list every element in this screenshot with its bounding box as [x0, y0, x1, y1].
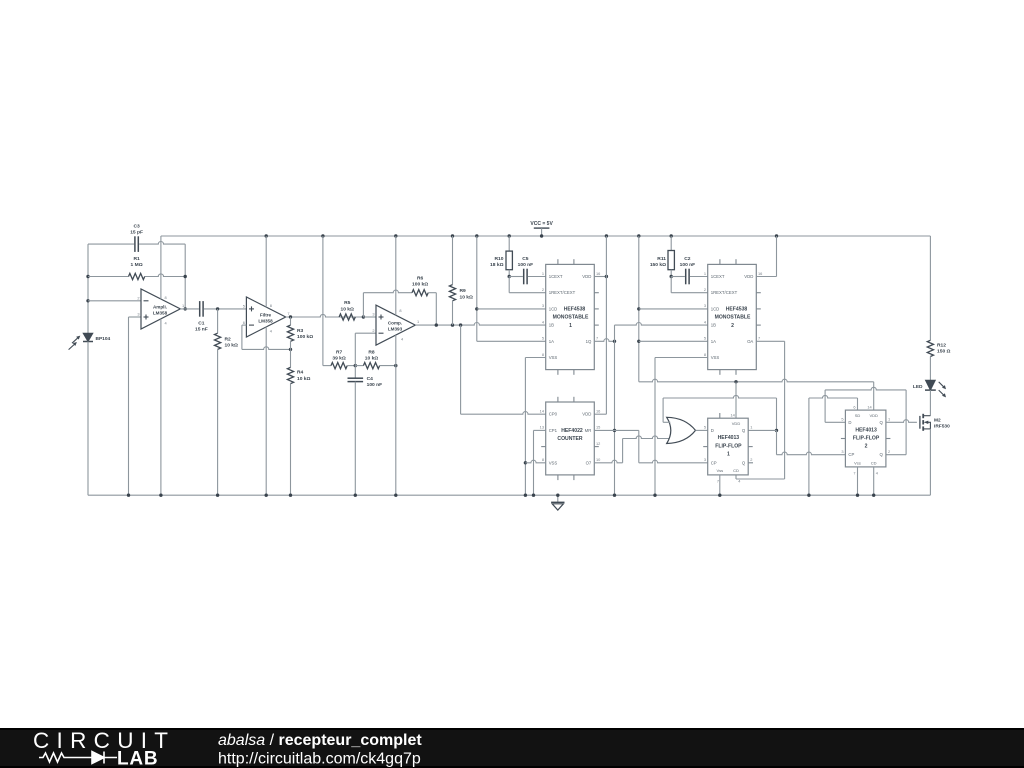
- svg-text:R7: R7: [336, 350, 343, 356]
- svg-text:5: 5: [243, 303, 245, 308]
- wire R4 lower: [290, 384, 292, 496]
- wire R10 jog to U4 pin2: [508, 277, 510, 293]
- svg-text:150 Ω: 150 Ω: [937, 349, 951, 355]
- svg-text:3: 3: [542, 303, 544, 308]
- svg-text:FLIP-FLOP: FLIP-FLOP: [853, 436, 880, 442]
- svg-text:M2: M2: [934, 417, 941, 423]
- svg-text:3: 3: [841, 449, 843, 454]
- svg-text:1A: 1A: [711, 339, 716, 344]
- capacitor C2: [685, 269, 687, 285]
- svg-text:2: 2: [372, 328, 374, 333]
- svg-text:1: 1: [417, 319, 419, 324]
- svg-text:1CD: 1CD: [711, 306, 720, 311]
- wire U6 O7 stub: [594, 460, 622, 463]
- svg-text:C5: C5: [522, 256, 529, 262]
- resistor R1: [129, 273, 145, 279]
- wire U3 pin2 stub: [355, 332, 376, 334]
- wire 1Q jog up: [614, 325, 616, 341]
- wire FF1 Vss to ground: [719, 475, 721, 495]
- svg-text:BP104: BP104: [96, 336, 111, 342]
- svg-text:2: 2: [731, 323, 734, 329]
- junction dot R11 C2: [670, 275, 673, 278]
- wire C5 right to U4 pin1: [528, 276, 546, 278]
- svg-text:7: 7: [287, 311, 289, 316]
- svg-text:R5: R5: [344, 300, 351, 306]
- junction dots output line: [435, 323, 438, 326]
- svg-text:10 kΩ: 10 kΩ: [460, 294, 474, 300]
- svg-text:3: 3: [704, 457, 706, 462]
- svg-text:1: 1: [704, 271, 706, 276]
- wire U3 pin8 to VCC: [395, 236, 397, 315]
- svg-text:Vss: Vss: [716, 468, 723, 473]
- svg-text:2: 2: [704, 287, 706, 292]
- resistor R9: [452, 236, 454, 285]
- wire R4 upper: [290, 349, 292, 367]
- svg-text:1: 1: [750, 425, 752, 430]
- wire R6 top left: [363, 290, 412, 293]
- wire U4 VSS to ground: [525, 357, 545, 359]
- svg-text:14: 14: [540, 409, 545, 414]
- wire U2 pin8 to VCC: [265, 236, 267, 307]
- svg-text:MONOSTABLE: MONOSTABLE: [553, 315, 589, 321]
- junction dot FF1 Q node: [775, 429, 778, 432]
- wire R1 line right: [145, 274, 186, 277]
- wire FF2 D from Qbar: [824, 390, 826, 422]
- svg-text:5: 5: [841, 417, 843, 422]
- svg-text:16: 16: [758, 271, 762, 276]
- ground symbol: [557, 495, 559, 502]
- wire U5 VDD: [756, 276, 776, 278]
- wire C4 lower: [354, 382, 356, 496]
- svg-text:R3: R3: [297, 328, 304, 334]
- junction dot FF1 VDD: [734, 380, 737, 383]
- wire C3 line right: [139, 242, 185, 245]
- wire U4 1Q stub: [594, 339, 614, 342]
- wire VCC riser 2: [638, 236, 640, 382]
- svg-text:1CEXT: 1CEXT: [549, 274, 563, 279]
- resistor R11: [670, 236, 672, 251]
- svg-text:2: 2: [865, 444, 868, 450]
- junction dot 1Q node: [613, 340, 616, 343]
- wire right top corner: [929, 236, 931, 340]
- wire R11 jog to U5 pin2: [670, 277, 672, 293]
- svg-text:12: 12: [596, 441, 600, 446]
- wire U2 pin6 stub: [242, 324, 247, 326]
- svg-text:OA: OA: [747, 339, 753, 344]
- svg-text:10 kΩ: 10 kΩ: [340, 306, 354, 312]
- svg-text:3: 3: [372, 312, 374, 317]
- svg-text:4: 4: [542, 319, 545, 324]
- wire U1 pin3 down to ground: [128, 317, 130, 495]
- svg-text:Comp.: Comp.: [388, 321, 402, 326]
- junction dot R8 ground leg: [394, 364, 397, 367]
- wire Q1 to FF2 CP: [776, 430, 778, 454]
- svg-text:8: 8: [165, 295, 167, 300]
- wire FF2 VDD drop: [873, 382, 875, 410]
- svg-text:2: 2: [137, 295, 139, 300]
- svg-text:2: 2: [542, 287, 544, 292]
- svg-text:8: 8: [399, 308, 401, 313]
- op-amp U1 Ampli LM358: [141, 289, 180, 329]
- svg-text:R10: R10: [495, 256, 504, 262]
- wire U5 VSS to ground: [655, 357, 708, 359]
- wire R2 lower: [217, 349, 219, 495]
- wire Qbar2 line: [825, 387, 906, 390]
- svg-text:7: 7: [853, 470, 855, 475]
- op-amp U3 Comp LM393: [376, 305, 415, 345]
- wire FF2 SD to ground: [808, 398, 810, 495]
- wire C2 right to U5 pin1: [690, 276, 708, 278]
- svg-text:1: 1: [888, 417, 890, 422]
- wire U5 1A line: [639, 340, 708, 342]
- svg-text:C3: C3: [133, 223, 140, 229]
- svg-text:1CD: 1CD: [549, 306, 558, 311]
- svg-text:7: 7: [717, 478, 719, 483]
- wire 1Q down: [614, 341, 616, 495]
- svg-text:16: 16: [596, 271, 600, 276]
- wire OR output to FF1 D: [696, 429, 708, 431]
- svg-text:VDD: VDD: [582, 274, 591, 279]
- svg-text:http://circuitlab.com/ck4gq7p: http://circuitlab.com/ck4gq7p: [218, 751, 421, 768]
- wire VCC top bus: [161, 235, 931, 237]
- svg-text:CP1: CP1: [549, 428, 558, 433]
- IC U4 HEF4538 MONOSTABLE 1: [546, 264, 595, 369]
- svg-text:R11: R11: [657, 256, 666, 262]
- svg-text:R6: R6: [417, 276, 424, 282]
- svg-text:13: 13: [540, 425, 544, 430]
- wire U3 pin4 to ground: [395, 335, 397, 495]
- IC U8 HEF4013 FLIP-FLOP 1: [708, 418, 749, 475]
- svg-text:VDD: VDD: [732, 421, 741, 426]
- wire FF1 VDD drop: [735, 382, 737, 418]
- capacitor C1: [199, 301, 201, 317]
- mosfet M2 IRF530: [919, 416, 921, 429]
- svg-text:18 kΩ: 18 kΩ: [490, 262, 504, 268]
- svg-text:10 kΩ: 10 kΩ: [365, 356, 379, 362]
- svg-text:1: 1: [569, 323, 572, 329]
- resistor R2: [215, 333, 221, 349]
- junction dot 1Q MR cross: [613, 429, 616, 432]
- wire FF1 Q stub: [748, 429, 776, 431]
- junction dot comparator pin3 node: [362, 315, 365, 318]
- resistor R12: [927, 340, 933, 356]
- svg-text:VSS: VSS: [549, 355, 558, 360]
- wire U3 pin3 input: [363, 316, 376, 318]
- wire MR net down-right: [638, 430, 640, 462]
- resistor R5: [339, 314, 355, 320]
- svg-text:Filtre: Filtre: [260, 313, 272, 318]
- wire U1 pin8 to VCC: [160, 236, 162, 299]
- wire U2 output: [286, 314, 376, 317]
- junction dot U4 VDD: [605, 275, 608, 278]
- svg-text:15 nF: 15 nF: [195, 327, 208, 333]
- svg-text:10 kΩ: 10 kΩ: [297, 376, 311, 382]
- wire CP0 line: [461, 412, 546, 415]
- svg-text:O7: O7: [586, 460, 592, 465]
- svg-text:4: 4: [270, 329, 273, 334]
- svg-text:R2: R2: [225, 337, 232, 343]
- svg-text:4: 4: [401, 337, 404, 342]
- wire R8 line: [355, 365, 363, 367]
- wire FF2 Q to gate: [886, 420, 917, 423]
- svg-text:VDD: VDD: [582, 412, 591, 417]
- wire output to CP0 vertical: [460, 325, 462, 414]
- svg-text:1REXT/CEXT: 1REXT/CEXT: [711, 290, 738, 295]
- svg-text:4: 4: [876, 470, 879, 475]
- svg-text:1Q: 1Q: [586, 339, 592, 344]
- svg-text:15 pF: 15 pF: [130, 230, 143, 236]
- wire C2 left: [671, 276, 685, 278]
- wire U1 output: [180, 308, 199, 310]
- junction dots left vertical: [86, 275, 89, 278]
- svg-text:5: 5: [704, 336, 706, 341]
- junction dots ground bus: [127, 494, 130, 497]
- wire feedback right vertical: [184, 244, 186, 309]
- svg-text:10 kΩ: 10 kΩ: [225, 343, 239, 349]
- svg-text:LED: LED: [913, 384, 923, 390]
- wire M2 source down: [929, 429, 931, 495]
- wire R6 left vertical: [362, 293, 364, 317]
- wire U5 output to FF1 CD: [756, 340, 784, 342]
- wire U6 VSS join: [525, 460, 545, 463]
- wire U2 pin4 to ground: [265, 327, 267, 495]
- svg-text:C2: C2: [684, 256, 691, 262]
- capacitor C5: [523, 269, 525, 285]
- svg-text:16: 16: [596, 409, 600, 414]
- svg-text:4: 4: [704, 319, 707, 324]
- logo doodle resistor and diode: [39, 753, 72, 762]
- wire R7 to node: [347, 365, 355, 367]
- wire U6 CP1 to ground: [534, 429, 546, 431]
- wire U2 feedback down: [241, 325, 243, 349]
- svg-text:HEF4013: HEF4013: [718, 435, 740, 441]
- wire U3 output: [415, 323, 545, 326]
- wire C5 left: [509, 276, 523, 278]
- svg-text:MONOSTABLE: MONOSTABLE: [715, 315, 751, 321]
- svg-text:FLIP-FLOP: FLIP-FLOP: [715, 443, 742, 449]
- svg-text:1REXT/CEXT: 1REXT/CEXT: [549, 290, 576, 295]
- svg-text:CP: CP: [848, 452, 854, 457]
- wire U4 1A line: [477, 340, 546, 342]
- wire FF1 Q feedback: [663, 395, 776, 398]
- svg-text:R9: R9: [460, 288, 467, 294]
- wire U2 feedback across: [242, 347, 291, 350]
- wire LED to M2 drain: [929, 390, 931, 416]
- wire FF2 Vss to ground: [857, 467, 859, 495]
- svg-text:1CEXT: 1CEXT: [711, 274, 725, 279]
- svg-text:2: 2: [888, 449, 890, 454]
- resistor R3: [287, 325, 293, 341]
- svg-text:8: 8: [542, 352, 544, 357]
- svg-text:R12: R12: [937, 342, 946, 348]
- resistor R8: [363, 363, 379, 369]
- svg-text:C1: C1: [198, 321, 205, 327]
- IC U6 HEF4022 COUNTER: [546, 402, 595, 475]
- svg-text:D: D: [711, 428, 714, 433]
- svg-text:C4: C4: [367, 376, 374, 382]
- svg-text:MR: MR: [585, 428, 592, 433]
- svg-text:6: 6: [853, 405, 855, 410]
- svg-text:HEF4022: HEF4022: [561, 428, 583, 434]
- wire 1Q to U5 1B: [615, 322, 708, 325]
- svg-text:14: 14: [730, 413, 735, 418]
- svg-text:1B: 1B: [549, 323, 554, 328]
- wire R6 right vertical: [435, 293, 437, 325]
- svg-text:LM358: LM358: [258, 319, 273, 324]
- photodiode BP104: [83, 333, 93, 341]
- svg-text:CD: CD: [871, 461, 877, 466]
- svg-text:150 kΩ: 150 kΩ: [650, 262, 666, 268]
- svg-text:LM393: LM393: [388, 327, 403, 332]
- wire U3 pin2 riser: [354, 333, 356, 365]
- svg-text:Vss: Vss: [854, 461, 861, 466]
- wire left vertical upper: [87, 244, 89, 333]
- svg-text:R8: R8: [368, 350, 375, 356]
- svg-text:CP0: CP0: [549, 412, 558, 417]
- svg-text:6: 6: [243, 320, 245, 325]
- svg-text:HEF4538: HEF4538: [564, 307, 586, 313]
- resistor R6: [412, 290, 428, 296]
- svg-text:5: 5: [704, 425, 706, 430]
- wire U1 pin2 input: [88, 300, 141, 302]
- wire R3 lower: [290, 341, 292, 349]
- svg-text:VSS: VSS: [711, 355, 720, 360]
- svg-text:100 nF: 100 nF: [367, 382, 383, 388]
- junction dots on VCC bus: [265, 234, 268, 237]
- svg-text:3: 3: [704, 303, 706, 308]
- or-gate U7: [667, 417, 696, 443]
- svg-text:1: 1: [727, 452, 730, 458]
- svg-text:39 kΩ: 39 kΩ: [332, 356, 346, 362]
- svg-text:R1: R1: [133, 256, 140, 262]
- svg-text:LAB: LAB: [117, 749, 158, 768]
- svg-text:COUNTER: COUNTER: [557, 436, 583, 442]
- wire R3 upper: [290, 317, 292, 325]
- wire C4 upper: [354, 366, 356, 379]
- svg-text:15: 15: [596, 425, 600, 430]
- svg-text:1: 1: [182, 303, 184, 308]
- junction dot R3 top: [289, 315, 292, 318]
- IC U5 HEF4538 MONOSTABLE 2: [708, 264, 757, 369]
- capacitor C3: [134, 236, 136, 252]
- svg-text:VCC = 5V: VCC = 5V: [530, 221, 553, 227]
- junction dot R2 node: [216, 307, 219, 310]
- svg-text:1 MΩ: 1 MΩ: [131, 262, 143, 268]
- wire U5 1CD line: [639, 308, 708, 310]
- wire FF2 CD to ground: [873, 467, 875, 495]
- junction dot U2 feedback: [289, 348, 292, 351]
- svg-text:100 kΩ: 100 kΩ: [412, 282, 428, 288]
- wire U6 MR stub: [594, 429, 639, 431]
- wire ground bus: [88, 494, 930, 496]
- LED D2: [926, 380, 936, 390]
- svg-text:3: 3: [137, 312, 139, 317]
- svg-text:D: D: [848, 420, 851, 425]
- wire U4 1CD line: [477, 308, 546, 310]
- svg-text:IRF530: IRF530: [934, 423, 950, 429]
- resistor R7: [331, 363, 347, 369]
- power flag VCC = 5V: [534, 227, 550, 229]
- junction dots VCC riser 2: [637, 307, 640, 310]
- junction dot divider node: [354, 364, 357, 367]
- wire R7 branch vertical: [322, 236, 324, 366]
- wire U4 VDD: [594, 276, 606, 278]
- svg-text:100 nF: 100 nF: [518, 262, 534, 268]
- svg-text:R4: R4: [297, 370, 304, 376]
- wire R1 line left: [88, 276, 129, 278]
- svg-text:LM358: LM358: [153, 311, 168, 316]
- wire VCC riser U4: [476, 236, 478, 341]
- svg-text:VDD: VDD: [869, 413, 878, 418]
- wire O7 jog to OR input: [622, 439, 624, 463]
- svg-text:CP: CP: [711, 460, 717, 465]
- svg-text:5: 5: [542, 336, 544, 341]
- wire U1 pin3 input: [129, 316, 142, 318]
- op-amp U2 Filtre LM358: [246, 297, 285, 337]
- svg-text:10: 10: [596, 457, 601, 462]
- wire U1 pin4 to ground: [160, 319, 162, 496]
- wire VDD rail vertical: [605, 236, 607, 414]
- capacitor C4: [348, 377, 364, 379]
- resistor R10: [508, 236, 510, 251]
- svg-text:8: 8: [270, 303, 272, 308]
- svg-text:VDD: VDD: [744, 274, 753, 279]
- svg-text:HEF4538: HEF4538: [726, 307, 748, 313]
- svg-text:7: 7: [758, 336, 760, 341]
- svg-text:100 kΩ: 100 kΩ: [297, 334, 313, 340]
- wire R2 upper: [217, 309, 219, 333]
- footer bar: [0, 728, 1024, 768]
- junction dot R10 C5: [508, 275, 511, 278]
- resistor R4: [287, 367, 293, 383]
- svg-text:4: 4: [165, 320, 168, 325]
- wire OR upper input: [662, 398, 664, 422]
- wire VDD line to flip-flops: [639, 379, 874, 382]
- svg-text:1A: 1A: [549, 339, 554, 344]
- junction dot VSS join: [524, 461, 527, 464]
- svg-text:8: 8: [542, 457, 544, 462]
- wire R12 to LED: [929, 357, 931, 381]
- wire R7 line: [323, 365, 331, 367]
- svg-text:1: 1: [542, 271, 544, 276]
- wire C3 line left: [88, 243, 134, 245]
- svg-text:abalsa / recepteur_complet: abalsa / recepteur_complet: [218, 732, 422, 749]
- svg-text:HEF4013: HEF4013: [855, 427, 877, 433]
- svg-text:7: 7: [596, 336, 598, 341]
- junction dots feedback node: [184, 275, 187, 278]
- junction dot 1CD branch: [475, 307, 478, 310]
- svg-text:100 nF: 100 nF: [680, 262, 696, 268]
- svg-text:SD: SD: [855, 413, 861, 418]
- svg-text:1B: 1B: [711, 323, 716, 328]
- svg-text:8: 8: [704, 352, 706, 357]
- IC U9 HEF4013 FLIP-FLOP 2: [845, 410, 886, 467]
- svg-text:CD: CD: [733, 468, 739, 473]
- wire R6 top right: [428, 292, 436, 294]
- svg-text:14: 14: [867, 405, 872, 410]
- wire R8 to ground leg: [380, 365, 396, 367]
- wire C1 to U2 pin5: [204, 308, 247, 310]
- wire left vertical lower: [87, 342, 89, 496]
- svg-text:2: 2: [750, 457, 752, 462]
- svg-text:Ampli.: Ampli.: [153, 304, 167, 309]
- svg-text:VSS: VSS: [549, 460, 558, 465]
